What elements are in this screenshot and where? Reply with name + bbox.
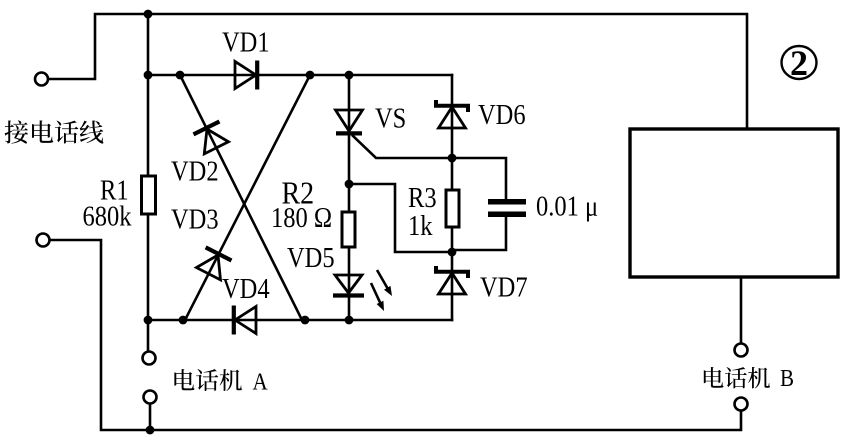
terminal: phone line upper (35, 73, 48, 86)
terminal: phone A lower (144, 391, 157, 404)
node bridge bottom left (144, 316, 153, 325)
svg-text:VD4: VD4 (222, 272, 270, 304)
wire: VS/R2/VD5 branch x=349 (348, 75, 351, 320)
diode VD4 (234, 306, 256, 335)
wire: VD1 rail y=75 (148, 74, 452, 77)
node VS branch top (345, 71, 354, 80)
terminal: phone B lower (735, 398, 748, 411)
svg-text:A: A (253, 368, 269, 395)
wire: VS gate to capacitor top (353, 136, 506, 199)
svg-text:VD1: VD1 (222, 26, 270, 58)
svg-text:VD2: VD2 (171, 155, 219, 187)
node diag B bottom (179, 316, 188, 325)
badge: circled 2 (782, 46, 817, 79)
node R3 bottom node (448, 248, 457, 257)
terminal: phone B upper (735, 344, 748, 357)
label dianhuaji A (telephone A) (174, 369, 242, 391)
node diag A bottom (301, 316, 310, 325)
LED VD5 (333, 275, 364, 296)
resistor R3 (446, 190, 459, 227)
svg-text:R2: R2 (282, 175, 315, 211)
svg-text:VD7: VD7 (480, 271, 528, 303)
node diag B top (306, 71, 315, 80)
wire: R1 bottom to bridge bottom to terminal A upper (147, 214, 150, 352)
wire: terminal2 to bottom bus (50, 240, 741, 430)
svg-text:0.01 μ: 0.01 μ (536, 190, 598, 222)
box: telephone B unit (630, 129, 838, 277)
terminal: phone A upper (143, 352, 156, 365)
svg-text:B: B (780, 365, 794, 392)
wire: jog from R2 top node to R3 bottom node (349, 184, 452, 252)
resistor R1 (142, 176, 156, 214)
wire: top loop terminal1 to box (48, 14, 747, 129)
thyristor VS (336, 110, 363, 133)
label dianhuaji B (telephone B) (704, 367, 770, 388)
wire: bridge diagonal B (185, 75, 310, 320)
wire: terminal A lower to bottom bus (149, 404, 152, 430)
node diag A top (176, 71, 185, 80)
diode VD3 (196, 247, 232, 280)
resistor R2 (342, 212, 355, 247)
wire: vertical x=148 top to R1 (147, 14, 150, 176)
svg-text:1k: 1k (408, 209, 433, 241)
wire: bridge diagonal A (180, 75, 302, 320)
node top rail (144, 10, 153, 19)
node R2 top node (345, 180, 354, 189)
svg-text:680k: 680k (83, 200, 133, 232)
node VD6 bottom node (448, 154, 457, 163)
terminal: phone line lower (37, 234, 50, 247)
label jie-dian-hua-xian (connect phone line) (5, 120, 104, 143)
node bottom bus (146, 426, 155, 435)
svg-text:VD6: VD6 (478, 98, 526, 130)
svg-text:VD5: VD5 (287, 241, 335, 273)
wire: VD6 branch vertical x=452 (451, 75, 454, 320)
LED VD5 emission arrows (377, 270, 388, 289)
wire: capacitor bottom return (452, 217, 506, 250)
zener VD6 (436, 100, 468, 128)
zener VD7 (436, 266, 468, 294)
capacitor C 0.01u plates (488, 199, 526, 217)
diode VD2 (193, 121, 229, 154)
wire: box bottom to terminal B upper (740, 277, 743, 344)
svg-text:VD3: VD3 (171, 203, 219, 235)
node VD5 bottom (345, 316, 354, 325)
node left/VD1 rail (144, 71, 153, 80)
svg-text:2: 2 (790, 43, 808, 83)
svg-text:VS: VS (375, 102, 406, 134)
diode VD1 (235, 61, 257, 90)
wire: bridge bottom rail y=320 (148, 319, 452, 322)
